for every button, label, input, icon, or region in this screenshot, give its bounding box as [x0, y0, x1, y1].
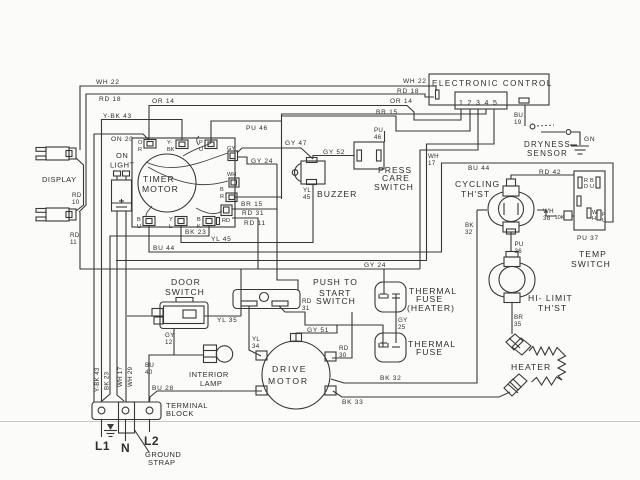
timer cam curves [146, 136, 228, 216]
svg-text:SWITCH: SWITCH [571, 259, 611, 269]
timer terminal B/U [137, 217, 155, 231]
ground symbol at L1 [104, 424, 117, 437]
timer terminal RD [221, 205, 232, 224]
svg-text:GY 24: GY 24 [364, 262, 386, 269]
svg-text:HI- LIMIT: HI- LIMIT [528, 293, 573, 303]
svg-text:ELECTRONIC CONTROL: ELECTRONIC CONTROL [432, 79, 553, 88]
svg-text:Y-: Y- [167, 140, 172, 146]
svg-text:GY: GY [227, 146, 235, 152]
svg-text:L: L [169, 224, 172, 230]
door switch [152, 277, 208, 329]
drive motor M1 [256, 334, 336, 410]
wire BR 15 [235, 109, 470, 208]
svg-text:U: U [590, 184, 594, 190]
svg-text:OR 14: OR 14 [390, 98, 413, 105]
svg-text:DRIVE: DRIVE [272, 364, 307, 374]
wire GY 24 [237, 109, 478, 269]
vertical wire labels [94, 366, 134, 392]
svg-text:10: 10 [72, 199, 80, 206]
svg-text:38: 38 [543, 215, 551, 222]
timer terminal B/K [197, 217, 220, 231]
svg-text:BU: BU [145, 362, 154, 369]
svg-text:R: R [138, 147, 142, 153]
timer terminal GY [227, 146, 238, 161]
wire PU 36 [511, 232, 524, 255]
svg-text:ON 20: ON 20 [111, 136, 134, 143]
svg-text:11: 11 [70, 239, 77, 246]
svg-text:RD 18: RD 18 [99, 96, 121, 103]
wire ON 20 [94, 134, 149, 402]
svg-text:OR 14: OR 14 [152, 98, 175, 105]
svg-text:B: B [220, 187, 224, 193]
wire BU 28 [150, 385, 263, 402]
svg-text:DISPLAY: DISPLAY [42, 175, 77, 184]
svg-text:STRAP: STRAP [148, 458, 176, 467]
wire GY 25 [396, 298, 408, 343]
display label [42, 175, 77, 184]
svg-text:BR 15: BR 15 [241, 201, 263, 208]
svg-text:YL 45: YL 45 [211, 236, 232, 243]
svg-text:GY 24: GY 24 [251, 158, 273, 165]
svg-text:BU 28: BU 28 [152, 385, 174, 392]
svg-text:WH: WH [227, 172, 236, 178]
wire GY 51 [296, 325, 337, 341]
svg-text:DOOR: DOOR [171, 277, 201, 287]
wire YL 34 [249, 306, 261, 356]
svg-text:U: U [199, 147, 203, 153]
svg-text:32: 32 [465, 229, 473, 236]
interior lamp [189, 345, 233, 388]
svg-text:B: B [137, 217, 141, 223]
wire RD 18 [79, 94, 434, 212]
wire RD 42 [511, 169, 574, 179]
wire PU 46 press care stub [374, 127, 385, 142]
svg-text:TH'ST: TH'ST [538, 303, 567, 313]
svg-text:RD 18: RD 18 [397, 88, 419, 95]
wire GY 12 [165, 328, 175, 355]
temp switch box [571, 171, 611, 269]
svg-text:PU 37: PU 37 [577, 235, 599, 242]
svg-text:INTERIOR: INTERIOR [189, 370, 229, 379]
thermal fuse [375, 333, 456, 362]
svg-text:19: 19 [514, 119, 522, 126]
svg-text:WH 29: WH 29 [127, 366, 134, 387]
svg-text:RD 11: RD 11 [244, 220, 266, 227]
wire RD 31 timer [232, 209, 277, 217]
wire RD 11 timer stub [232, 218, 266, 269]
push to start switch [233, 277, 358, 309]
svg-text:46: 46 [374, 134, 382, 141]
wire BU 19 [514, 105, 525, 126]
svg-text:WH 22: WH 22 [96, 79, 120, 86]
svg-text:H: H [592, 216, 596, 222]
svg-text:N: N [121, 441, 130, 455]
scan edge line bottom [0, 421, 640, 423]
svg-text:(HEATER): (HEATER) [407, 303, 455, 313]
wire GY 52 [313, 149, 354, 158]
svg-text:MOTOR: MOTOR [268, 376, 309, 386]
wire BK 32 [331, 210, 487, 383]
svg-text:R: R [220, 194, 224, 200]
timer terminal B/R [220, 187, 237, 202]
svg-text:BLOCK: BLOCK [166, 409, 194, 418]
timer terminal O/R [138, 140, 156, 154]
timer terminal Y-BK [167, 140, 188, 153]
node L1 [95, 420, 110, 454]
dryness sensor label [524, 140, 577, 158]
electronic control box U1 [390, 74, 553, 105]
svg-text:GY: GY [398, 317, 408, 324]
svg-text:TEMP: TEMP [579, 249, 607, 259]
svg-text:RD: RD [70, 232, 80, 239]
wire BU 44 [149, 163, 613, 252]
svg-text:YL: YL [303, 187, 311, 194]
wire BR 35 [512, 303, 523, 335]
svg-text:BK 23: BK 23 [104, 371, 111, 390]
wire OR 14 [149, 98, 461, 140]
svg-text:HEATER: HEATER [511, 362, 551, 372]
wire RD 31 [277, 164, 298, 291]
wire PU 46 [211, 121, 282, 143]
svg-text:WH: WH [543, 208, 554, 215]
thermal fuse (heater) [375, 282, 457, 313]
buzzer [292, 158, 357, 202]
svg-text:BU: BU [514, 112, 523, 119]
svg-text:31: 31 [302, 305, 310, 312]
wire BK 23 [102, 226, 209, 401]
wire Y-BK 43 [102, 113, 183, 402]
svg-text:GN: GN [584, 136, 595, 143]
wire WH 22 [80, 79, 436, 150]
svg-text:PU: PU [515, 241, 524, 248]
node L2 [144, 420, 159, 449]
svg-text:YL 35: YL 35 [217, 317, 238, 324]
ground GN [571, 136, 595, 154]
heater bottom connector [504, 374, 527, 396]
wire BK 33 [333, 391, 510, 406]
wire RD 10 [72, 158, 84, 211]
svg-text:LAMP: LAMP [200, 379, 222, 388]
heater element zigzag [511, 347, 566, 386]
electronic control pins 1 2 3 4 5 [455, 92, 507, 109]
timer terminal P/U [199, 140, 217, 153]
svg-text:45: 45 [303, 194, 311, 201]
svg-text:PU: PU [374, 127, 383, 134]
wire GY 47 [237, 140, 313, 159]
svg-text:U: U [137, 224, 141, 230]
svg-text:BUZZER: BUZZER [317, 189, 357, 199]
wire RD 30 [332, 312, 352, 359]
svg-text:CYCLING: CYCLING [455, 179, 500, 189]
svg-text:BU 44: BU 44 [153, 245, 175, 252]
svg-text:BK 23: BK 23 [185, 229, 206, 236]
svg-text:TIMER: TIMER [143, 174, 175, 184]
svg-text:TH'ST: TH'ST [461, 189, 490, 199]
wire WH 17 lamp down [117, 211, 124, 401]
svg-text:BK 33: BK 33 [342, 399, 363, 406]
svg-text:BR: BR [514, 314, 523, 321]
cycling thermostat [455, 179, 534, 234]
svg-text:GY: GY [165, 332, 175, 339]
svg-text:L1: L1 [95, 439, 110, 453]
svg-text:K: K [197, 224, 201, 230]
svg-text:WH 22: WH 22 [403, 78, 427, 85]
svg-text:WH 17: WH 17 [117, 366, 124, 387]
svg-text:PUSH TO: PUSH TO [313, 277, 358, 287]
svg-text:BK: BK [465, 222, 474, 229]
svg-text:BK 32: BK 32 [380, 375, 401, 382]
wire YL 35 [204, 316, 241, 324]
svg-text:SENSOR: SENSOR [527, 149, 568, 158]
svg-text:GY 47: GY 47 [285, 140, 307, 147]
resistor 10K [555, 211, 573, 221]
svg-text:L2: L2 [144, 434, 159, 448]
svg-text:RD 31: RD 31 [242, 210, 264, 217]
svg-text:30: 30 [339, 352, 347, 359]
svg-text:FUSE: FUSE [416, 347, 443, 357]
display connector J2 [36, 208, 76, 221]
svg-text:U: U [602, 218, 606, 224]
svg-text:WH: WH [428, 153, 439, 160]
wire BU 40 / lamp left [145, 355, 204, 402]
svg-text:P: P [199, 140, 203, 146]
svg-text:DRYNESS: DRYNESS [524, 140, 571, 149]
heater top connector [506, 334, 531, 355]
svg-text:O: O [138, 140, 143, 146]
svg-text:MOTOR: MOTOR [142, 184, 179, 194]
svg-text:10K: 10K [555, 215, 565, 221]
svg-text:D: D [584, 184, 588, 190]
svg-text:17: 17 [428, 160, 436, 167]
svg-text:12345: 12345 [459, 100, 501, 107]
press care switch [354, 142, 414, 192]
wire GY 24 lower bus [241, 262, 386, 316]
svg-text:BU 44: BU 44 [468, 165, 490, 172]
svg-text:Y-BK 43: Y-BK 43 [94, 367, 101, 392]
wire thermal fuse heater feed [383, 269, 385, 294]
svg-text:GY 51: GY 51 [307, 327, 329, 334]
svg-text:RD: RD [222, 218, 230, 224]
svg-text:BR 15: BR 15 [376, 109, 398, 116]
svg-text:12: 12 [165, 339, 173, 346]
svg-text:RD: RD [302, 298, 312, 305]
wire WH 38 to 10K [537, 208, 574, 222]
node N [121, 420, 130, 456]
terminal block [92, 401, 208, 420]
svg-text:Y: Y [169, 217, 173, 223]
wire EC pin4 to GY47 node [282, 109, 487, 199]
timer terminal Y/L [169, 217, 187, 231]
svg-text:Y-BK 43: Y-BK 43 [103, 113, 132, 120]
wire RD 31 push start [279, 298, 383, 347]
timer motor box [132, 138, 235, 227]
hi-limit thermostat [489, 252, 573, 314]
svg-text:SWITCH: SWITCH [374, 182, 414, 192]
wire RD 11 display branch [70, 212, 420, 269]
timer terminal WH [227, 172, 239, 187]
svg-text:SWITCH: SWITCH [165, 287, 205, 297]
dryness sensor switch [530, 124, 580, 145]
svg-text:40: 40 [145, 369, 153, 376]
ground strap [119, 402, 182, 467]
svg-text:ON: ON [116, 151, 128, 160]
svg-text:RD: RD [339, 345, 349, 352]
svg-text:SWITCH: SWITCH [316, 296, 356, 306]
wire WH 29 lamp down [125, 211, 127, 402]
svg-text:RD 42: RD 42 [539, 169, 561, 176]
wire door switch left [127, 315, 157, 317]
svg-text:34: 34 [252, 343, 260, 350]
svg-text:GY 52: GY 52 [323, 149, 345, 156]
wire WH 17 / EC pin5 [116, 109, 494, 261]
svg-text:B: B [197, 217, 201, 223]
svg-text:LIGHT: LIGHT [110, 161, 135, 170]
timer motor circle [138, 154, 196, 212]
svg-text:YL: YL [252, 336, 260, 343]
svg-text:35: 35 [514, 321, 522, 328]
svg-text:RD: RD [72, 192, 82, 199]
lamp ON LIGHT [110, 151, 135, 211]
svg-text:PU 46: PU 46 [246, 125, 268, 132]
wire YL 45 [181, 184, 313, 243]
display connector J1 [36, 147, 76, 160]
svg-text:BK: BK [167, 147, 175, 153]
svg-text:25: 25 [398, 324, 406, 331]
